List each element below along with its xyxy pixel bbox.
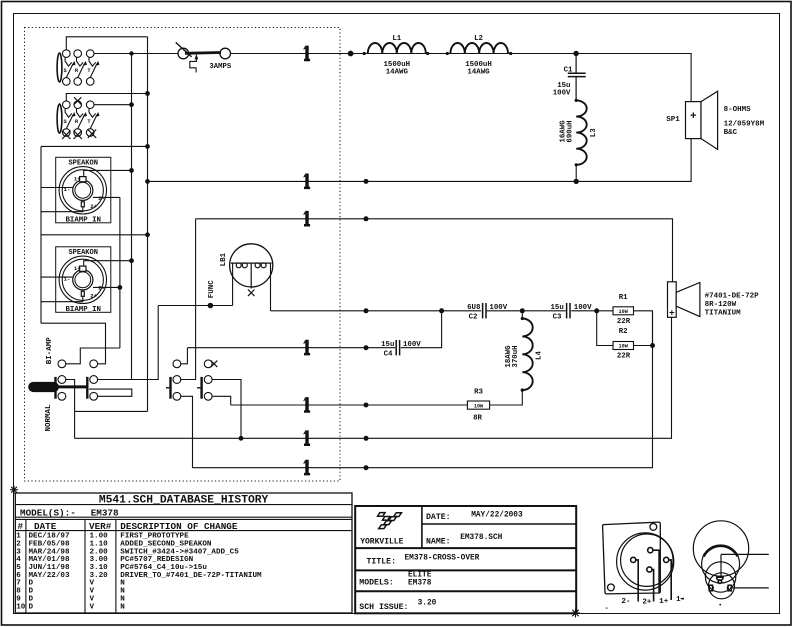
svg-text:MAR/24/98: MAR/24/98: [29, 548, 70, 556]
svg-text:1.10: 1.10: [90, 541, 109, 549]
asterisk top-left of table: [10, 486, 18, 494]
svg-text:MAY/22/03: MAY/22/03: [29, 572, 70, 580]
wire SK1 1- stub: [41, 187, 73, 189]
switch S1 toggle handle: [29, 382, 89, 391]
svg-text:1+: 1+: [659, 598, 669, 606]
svg-text:2: 2: [16, 541, 21, 549]
wire J1 tip to fuse: [94, 53, 178, 55]
svg-text:SPEAKON: SPEAKON: [68, 249, 97, 257]
svg-text:1: 1: [16, 533, 21, 541]
fuse F1 3AMPS: [176, 42, 231, 72]
svg-text:DATE: DATE: [34, 521, 57, 532]
junction dots R network: [594, 308, 599, 313]
svg-text:VER#: VER#: [89, 521, 112, 532]
wire row A (HF feed): [231, 54, 691, 102]
svg-text:1-: 1-: [64, 275, 71, 282]
svg-text:9: 9: [16, 595, 21, 603]
svg-text:TITLE:: TITLE:: [367, 558, 396, 567]
wire FUNC node: [158, 305, 232, 307]
svg-text:D: D: [29, 595, 34, 603]
dashed PCB boundary box: [25, 28, 341, 482]
svg-text:L3: L3: [590, 128, 598, 137]
wire left bus x41: [40, 146, 42, 323]
svg-text:N: N: [120, 580, 125, 588]
capacitor C1 15u 100V: [568, 54, 586, 101]
svg-text:R1: R1: [619, 294, 628, 302]
wire pole1 NC drop: [66, 380, 75, 439]
svg-text:100V: 100V: [553, 89, 571, 97]
svg-text:PC#5764_C4_10u->15u: PC#5764_C4_10u->15u: [120, 564, 207, 572]
svg-text:C4: C4: [384, 350, 393, 358]
lamp LB1: [230, 244, 273, 296]
svg-text:8R-120W: 8R-120W: [705, 301, 737, 309]
wire row B (SP1 return): [148, 139, 692, 182]
svg-text:2-: 2-: [98, 195, 105, 202]
svg-text:1+: 1+: [74, 265, 81, 272]
svg-text:DESCRIPTION OF CHANGE: DESCRIPTION OF CHANGE: [120, 521, 238, 532]
switch S1 contact circles: [58, 360, 212, 400]
wire C3 row right: [571, 310, 613, 312]
wire R1 right link: [634, 311, 653, 346]
svg-text:L1: L1: [392, 35, 401, 43]
speakON detail pins: [631, 548, 672, 602]
Yorkville logo (title block): [378, 513, 402, 529]
XLR connector detail: [693, 521, 769, 599]
svg-text:5: 5: [16, 564, 21, 572]
svg-text:EM378.SCH: EM378.SCH: [460, 534, 502, 542]
wire jack J1 top rail: [66, 37, 147, 50]
wire C2 row left: [271, 310, 482, 312]
svg-text:2+: 2+: [90, 293, 97, 300]
svg-text:ELITE: ELITE: [408, 572, 432, 580]
wire pole4 NC drop: [212, 380, 241, 439]
svg-text:3.10: 3.10: [90, 564, 109, 572]
wire SK2 2+ jog: [41, 297, 83, 302]
svg-text:R3: R3: [474, 389, 483, 397]
wire left bus to pole2 upper: [41, 323, 106, 364]
svg-text:FIRST_PROTOTYPE: FIRST_PROTOTYPE: [120, 533, 189, 541]
svg-text:2+: 2+: [642, 598, 652, 606]
svg-text:10: 10: [16, 603, 26, 611]
svg-text:#: #: [18, 521, 24, 532]
svg-text:DEC/18/97: DEC/18/97: [29, 533, 70, 541]
X mark on unused contact of pole 4: [211, 361, 218, 368]
svg-text:C1: C1: [564, 66, 573, 74]
svg-text:DRIVER_TO_#7401_DE-72P-TITANIU: DRIVER_TO_#7401_DE-72P-TITANIUM: [120, 572, 262, 580]
wire SK2 1+ rail: [84, 261, 132, 267]
wire row tweeter return: [75, 317, 672, 438]
wire jack J2 top rail: [66, 94, 147, 101]
speakON connector SK1 BIAMP_IN: [56, 157, 111, 223]
svg-text:370uH: 370uH: [512, 345, 520, 367]
wire main vertical bus: [147, 37, 149, 412]
svg-text:N: N: [120, 588, 125, 596]
svg-text:FUNC: FUNC: [208, 280, 216, 299]
svg-text:100V: 100V: [489, 304, 507, 312]
svg-text:12/059Y8M: 12/059Y8M: [724, 121, 765, 129]
wire row C4 (cap row): [187, 347, 395, 349]
svg-text:6: 6: [16, 572, 21, 580]
svg-text:2-: 2-: [621, 598, 630, 606]
wire SK2 1- stub: [41, 276, 73, 278]
svg-text:MODELS:: MODELS:: [359, 579, 393, 588]
wire SK2 2- stub: [93, 286, 120, 288]
svg-text:V: V: [90, 588, 95, 596]
svg-text:22R: 22R: [617, 353, 631, 361]
node FUNC dot: [208, 303, 214, 309]
inductor L4 370uH 18AWG: [522, 319, 532, 391]
svg-text:PC#5707_REDESIGN: PC#5707_REDESIGN: [120, 556, 193, 564]
svg-text:C3: C3: [553, 313, 562, 321]
svg-text:SCH ISSUE:: SCH ISSUE:: [359, 603, 408, 612]
history table M541.SCH_DATABASE_HISTORY: [15, 493, 352, 613]
svg-text:N: N: [120, 595, 125, 603]
wire SK1 2- stub: [93, 196, 120, 198]
svg-text:10W: 10W: [619, 344, 629, 350]
svg-text:1-: 1-: [676, 596, 685, 604]
svg-text:3.00: 3.00: [90, 556, 109, 564]
svg-text:6U8: 6U8: [467, 304, 481, 312]
wire row C (tweeter feed): [196, 219, 673, 282]
svg-text:BI-AMP: BI-AMP: [46, 337, 54, 365]
svg-text:MAY/01/98: MAY/01/98: [29, 556, 70, 564]
svg-text:V: V: [90, 595, 95, 603]
wire L3 to row B: [575, 165, 577, 182]
svg-text:2.00: 2.00: [90, 548, 109, 556]
title block: [355, 506, 576, 613]
port markers "1": [303, 46, 310, 476]
wire R2 left link: [597, 311, 613, 346]
connection dots on rows: [348, 51, 369, 471]
svg-text:#7401-DE-72P: #7401-DE-72P: [705, 292, 760, 300]
wire R2 right link: [634, 345, 653, 347]
svg-text:D: D: [29, 588, 34, 596]
wire LB1 right lead: [270, 263, 272, 311]
wire J2 tip stub: [94, 104, 132, 106]
speakON panel connector detail: [603, 522, 674, 594]
svg-text:+: +: [669, 308, 675, 319]
XLR detail pins: [709, 577, 731, 591]
wire C2-C3 row mid: [487, 310, 566, 312]
svg-text:-: -: [605, 605, 609, 613]
wire FUNC to pole2 NC: [98, 306, 159, 380]
wire row R3 right: [490, 390, 523, 405]
svg-text:BIAMP_IN: BIAMP_IN: [65, 217, 100, 225]
wire 2- bus to pole1 upper: [66, 348, 120, 364]
svg-text:TITANIUM: TITANIUM: [705, 310, 742, 318]
svg-text:MODEL(S):-: MODEL(S):-: [20, 508, 76, 519]
resistor R3 8R: [467, 401, 489, 409]
svg-text:4: 4: [16, 556, 21, 564]
junction dots left block: [118, 51, 244, 440]
inductor L3 690uH 16AWG: [576, 100, 587, 164]
inductor L2 1500uH 14AWG: [450, 43, 508, 54]
svg-text:ADDED_SECOND_SPEAKON: ADDED_SECOND_SPEAKON: [120, 541, 212, 549]
phone jack J2: [57, 101, 99, 136]
svg-text:3: 3: [16, 548, 21, 556]
wire SK1 2+ jog: [41, 207, 83, 212]
svg-text:14AWG: 14AWG: [386, 68, 409, 76]
speaker SP1 woofer: [686, 91, 718, 149]
svg-text:LB1: LB1: [220, 252, 228, 266]
svg-text:2-: 2-: [98, 285, 105, 292]
wire pole3 NO drop: [181, 396, 193, 467]
svg-text:15u: 15u: [381, 341, 394, 349]
wire left bus top rail: [41, 145, 148, 147]
wire row C4 right: [401, 311, 442, 348]
capacitor C3 15u 100V: [567, 303, 570, 318]
svg-text:V: V: [90, 580, 95, 588]
phone jack J1: [57, 50, 99, 85]
wire LB1 left lead: [232, 263, 234, 305]
svg-text:L4: L4: [536, 351, 544, 360]
tiny tick marks: [681, 598, 684, 600]
svg-text:L2: L2: [474, 35, 483, 43]
history table rows: [16, 533, 262, 612]
wire row R3: [231, 404, 468, 406]
svg-text:DATE:: DATE:: [426, 513, 451, 522]
svg-text:1+: 1+: [74, 176, 81, 183]
svg-text:8: 8: [16, 588, 21, 596]
svg-text:V: V: [90, 603, 95, 611]
svg-text:D: D: [29, 580, 34, 588]
wire pole2 NO link: [89, 389, 132, 396]
wire vertical bus x131: [131, 54, 133, 380]
svg-text:B&C: B&C: [724, 129, 738, 137]
svg-text:15u: 15u: [550, 304, 563, 312]
svg-text:SP1: SP1: [666, 116, 680, 124]
wire pole4 NO to R3 row: [212, 396, 231, 405]
svg-text:3.20: 3.20: [418, 600, 437, 608]
speakON connector SK2 BIAMP_IN: [56, 247, 111, 312]
svg-text:8R: 8R: [473, 414, 482, 422]
svg-text:22R: 22R: [617, 318, 631, 326]
svg-text:3AMPS: 3AMPS: [209, 63, 232, 71]
svg-text:3.20: 3.20: [90, 572, 109, 580]
svg-text:EM378-CROSS-OVER: EM378-CROSS-OVER: [405, 554, 480, 562]
svg-text:MAY/22/2003: MAY/22/2003: [471, 511, 523, 519]
resistor R1 22R: [613, 307, 634, 315]
svg-text:1.00: 1.00: [90, 533, 109, 541]
wire rowC vertical to pole3 NC: [181, 219, 196, 380]
svg-text:FEB/05/98: FEB/05/98: [29, 541, 70, 549]
svg-text:8-OHMS: 8-OHMS: [724, 106, 752, 114]
svg-text:2+: 2+: [90, 203, 97, 210]
svg-text:JUN/11/98: JUN/11/98: [29, 564, 70, 572]
wire cross rail y411: [75, 410, 148, 412]
svg-text:N: N: [120, 603, 125, 611]
tweeter driver #7401-DE-72P: [668, 282, 700, 318]
wire pole3 upper to C4 row: [181, 348, 188, 364]
svg-text:EM378: EM378: [91, 508, 119, 519]
svg-text:EM378: EM378: [408, 580, 432, 588]
svg-text:10W: 10W: [474, 403, 484, 409]
svg-text:SWITCH_#3424->#3407_ADD_C5: SWITCH_#3424->#3407_ADD_C5: [120, 548, 239, 556]
svg-text:NORMAL: NORMAL: [45, 404, 53, 432]
capacitor C2 6U8 100V: [483, 303, 486, 318]
wire left bus mid rail: [41, 234, 148, 236]
svg-text:BIAMP_IN: BIAMP_IN: [65, 306, 100, 314]
svg-text:R2: R2: [619, 328, 628, 336]
svg-text:100V: 100V: [574, 304, 592, 312]
svg-text:10W: 10W: [619, 309, 629, 315]
svg-text:7: 7: [16, 580, 21, 588]
asterisk bottom-right of title block: [571, 609, 580, 618]
wire SK1 1+ rail: [84, 170, 132, 176]
svg-text:14AWG: 14AWG: [467, 68, 490, 76]
inductor L1 1500uH 14AWG: [368, 43, 426, 54]
wire row R-pad return: [193, 311, 653, 468]
svg-text:NAME:: NAME:: [426, 537, 451, 546]
svg-text:690uH: 690uH: [567, 120, 575, 142]
svg-text:D: D: [29, 603, 34, 611]
svg-text:C2: C2: [469, 313, 478, 321]
svg-text:M541.SCH_DATABASE_HISTORY: M541.SCH_DATABASE_HISTORY: [99, 494, 269, 506]
switch S1 pole bars: [56, 377, 202, 399]
capacitor C4 15u 100V: [396, 340, 399, 355]
wire 2- bus vertical: [119, 197, 121, 348]
svg-text:100V: 100V: [403, 341, 421, 349]
svg-text:+: +: [690, 111, 697, 123]
svg-text:SPEAKON: SPEAKON: [68, 160, 97, 168]
svg-text:YORKVILLE: YORKVILLE: [360, 538, 403, 547]
resistor R2 22R: [613, 342, 634, 350]
